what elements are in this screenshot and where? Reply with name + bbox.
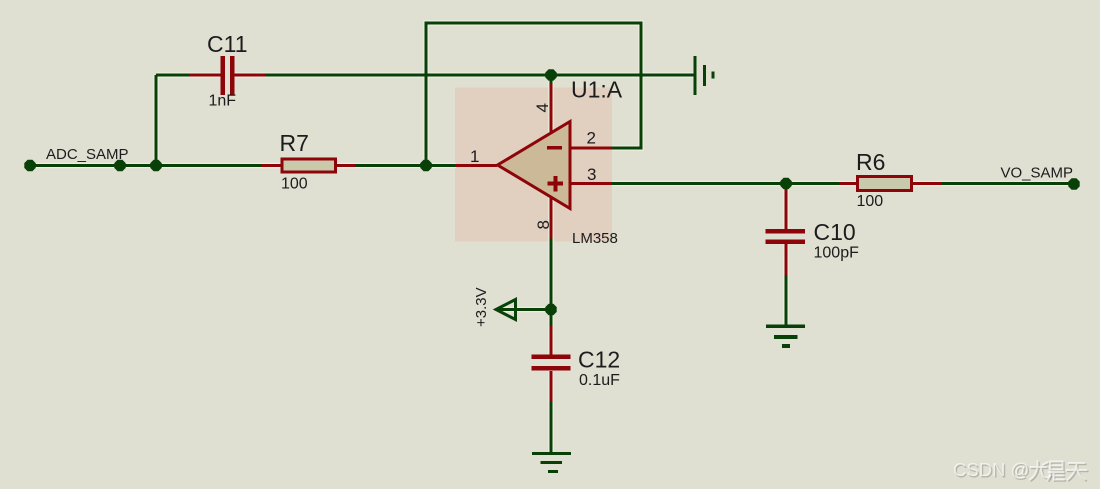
svg-text:R6: R6 bbox=[856, 149, 885, 175]
svg-text:C12: C12 bbox=[578, 347, 620, 373]
svg-text:3: 3 bbox=[587, 165, 596, 184]
svg-text:1: 1 bbox=[470, 147, 479, 166]
svg-text:C10: C10 bbox=[814, 219, 856, 245]
svg-text:2: 2 bbox=[587, 129, 596, 148]
svg-text:CSDN @: CSDN @ bbox=[953, 459, 1029, 480]
svg-text:U1:A: U1:A bbox=[571, 77, 623, 103]
svg-text:VO_SAMP: VO_SAMP bbox=[1001, 165, 1074, 182]
svg-text:0.1uF: 0.1uF bbox=[579, 372, 620, 389]
svg-text:ADC_SAMP: ADC_SAMP bbox=[46, 146, 129, 163]
svg-text:1nF: 1nF bbox=[209, 93, 237, 110]
svg-text:8: 8 bbox=[534, 220, 553, 229]
svg-text:R7: R7 bbox=[280, 130, 309, 156]
svg-text:+3.3V: +3.3V bbox=[473, 287, 490, 327]
svg-text:LM358: LM358 bbox=[572, 230, 618, 247]
svg-text:100: 100 bbox=[857, 193, 884, 210]
svg-text:100: 100 bbox=[281, 176, 308, 193]
svg-text:100pF: 100pF bbox=[814, 245, 860, 262]
svg-text:4: 4 bbox=[533, 103, 552, 112]
svg-text:C11: C11 bbox=[207, 31, 248, 57]
